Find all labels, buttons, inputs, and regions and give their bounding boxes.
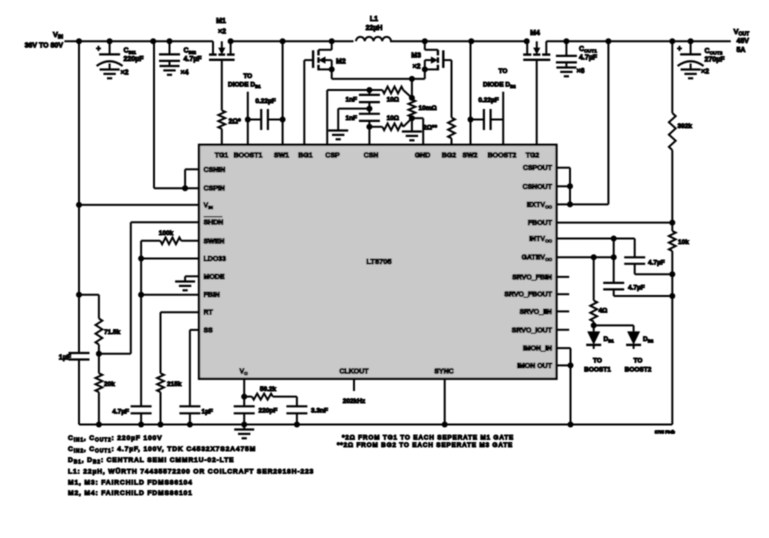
svg-text:SYNC: SYNC [434, 369, 453, 376]
svg-text:71.5k: 71.5k [104, 329, 121, 336]
svg-text:8705 F04b: 8705 F04b [655, 430, 676, 435]
svg-text:1nF: 1nF [345, 97, 357, 104]
svg-text:BG1: BG1 [298, 153, 313, 160]
svg-text:**2Ω FROM BG2 TO EACH SEPERATE: **2Ω FROM BG2 TO EACH SEPERATE M3 GATE [337, 442, 513, 449]
svg-text:CSNOUT: CSNOUT [522, 184, 552, 191]
svg-text:1µF: 1µF [202, 409, 213, 416]
svg-text:10Ω: 10Ω [387, 97, 399, 104]
svg-text:×2: ×2 [413, 64, 421, 71]
svg-text:M2, M4: FAIRCHILD FDMS86101: M2, M4: FAIRCHILD FDMS86101 [68, 490, 193, 497]
svg-text:TG1: TG1 [215, 153, 229, 160]
svg-text:M4: M4 [530, 30, 540, 37]
svg-text:GND: GND [415, 153, 431, 160]
svg-text:×2: ×2 [701, 69, 709, 76]
svg-text:4Ω: 4Ω [599, 308, 608, 315]
svg-text:5A: 5A [737, 47, 746, 54]
svg-text:*2Ω FROM TG1 TO EACH SEPERATE: *2Ω FROM TG1 TO EACH SEPERATE M1 GATE [342, 435, 514, 442]
svg-text:SHDN: SHDN [204, 220, 224, 227]
svg-text:CLKOUT: CLKOUT [339, 369, 369, 376]
svg-text:0.22µF: 0.22µF [255, 98, 275, 105]
svg-text:1nF: 1nF [345, 115, 357, 122]
svg-text:BOOST1: BOOST1 [584, 367, 611, 374]
svg-text:M3: M3 [411, 53, 421, 60]
svg-text:220µF: 220µF [124, 56, 145, 63]
svg-text:FBOUT: FBOUT [528, 220, 553, 227]
svg-text:202kHz: 202kHz [343, 398, 366, 405]
svg-text:36V TO 80V: 36V TO 80V [25, 43, 64, 50]
svg-text:RT: RT [204, 310, 214, 317]
svg-text:CSNIN: CSNIN [204, 167, 226, 174]
svg-text:L1: L1 [370, 16, 378, 23]
svg-text:22µH: 22µH [366, 25, 383, 32]
svg-text:4.7µF: 4.7µF [112, 409, 129, 416]
svg-text:4.7µF: 4.7µF [648, 260, 665, 267]
svg-text:+: + [677, 44, 682, 53]
svg-text:10Ω: 10Ω [387, 115, 399, 122]
svg-text:TO: TO [243, 73, 252, 80]
svg-text:56.2k: 56.2k [260, 386, 277, 393]
svg-text:×2: ×2 [121, 70, 129, 77]
svg-text:CSPOUT: CSPOUT [523, 165, 553, 172]
svg-text:2Ω*: 2Ω* [229, 119, 242, 126]
svg-text:M2: M2 [336, 59, 346, 66]
svg-text:220pF: 220pF [259, 408, 278, 415]
svg-text:4.7µF: 4.7µF [184, 56, 203, 63]
svg-text:M1: M1 [216, 18, 226, 25]
svg-text:100k: 100k [159, 230, 174, 237]
svg-text:+: + [96, 44, 101, 53]
svg-text:SRVO_FBIN: SRVO_FBIN [512, 274, 552, 281]
svg-text:FBIN: FBIN [204, 292, 220, 299]
svg-text:MODE: MODE [204, 274, 225, 281]
svg-text:TO: TO [634, 358, 643, 365]
svg-text:4.7µF: 4.7µF [579, 55, 598, 62]
svg-text:SRVO_FBOUT: SRVO_FBOUT [504, 292, 552, 299]
svg-text:L1: 22µH, WÜRTH 74435572200 OR: L1: 22µH, WÜRTH 74435572200 OR COILCRAFT… [68, 467, 314, 476]
svg-text:LT8705: LT8705 [366, 257, 391, 266]
svg-text:×2: ×2 [218, 29, 226, 36]
svg-text:48V: 48V [737, 38, 750, 45]
svg-text:IMON_IN: IMON_IN [523, 346, 552, 353]
svg-text:392k: 392k [678, 123, 693, 130]
svg-text:SW1: SW1 [274, 153, 289, 160]
svg-text:×4: ×4 [181, 70, 189, 77]
svg-text:SWEN: SWEN [204, 238, 225, 245]
svg-text:0.22µF: 0.22µF [478, 97, 498, 104]
svg-text:SS: SS [204, 327, 214, 334]
svg-text:CSN: CSN [364, 153, 379, 160]
svg-text:TO: TO [499, 68, 508, 75]
svg-text:LDO33: LDO33 [204, 256, 227, 263]
svg-text:TO: TO [593, 358, 602, 365]
svg-text:2Ω**: 2Ω** [423, 125, 437, 132]
svg-text:×6: ×6 [577, 68, 585, 75]
svg-text:4.7µF: 4.7µF [628, 285, 645, 292]
svg-text:BG2: BG2 [442, 153, 457, 160]
svg-text:SW2: SW2 [462, 153, 477, 160]
svg-text:CSPIN: CSPIN [204, 186, 225, 193]
svg-text:CSP: CSP [325, 153, 340, 160]
svg-text:M1, M3: FAIRCHILD FDMS86104: M1, M3: FAIRCHILD FDMS86104 [68, 480, 193, 487]
svg-text:SRVO_IOUT: SRVO_IOUT [512, 327, 553, 334]
svg-text:SRVO_IIN: SRVO_IIN [519, 309, 552, 316]
svg-text:BOOST1: BOOST1 [234, 153, 263, 160]
svg-text:215k: 215k [167, 381, 182, 388]
svg-text:270µF: 270µF [705, 57, 726, 64]
svg-text:3.3nF: 3.3nF [311, 408, 328, 415]
svg-text:IMON OUT: IMON OUT [517, 363, 553, 370]
svg-text:BOOST2: BOOST2 [488, 153, 517, 160]
svg-text:10k: 10k [678, 239, 689, 246]
svg-text:1µF: 1µF [59, 355, 72, 362]
svg-text:10mΩ: 10mΩ [419, 105, 437, 112]
svg-text:TG2: TG2 [526, 153, 540, 160]
svg-text:BOOST2: BOOST2 [625, 367, 652, 374]
svg-text:20k: 20k [104, 381, 115, 388]
